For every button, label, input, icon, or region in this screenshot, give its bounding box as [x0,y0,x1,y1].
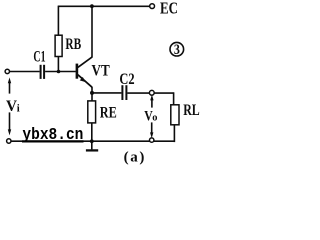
svg-text:i: i [17,104,20,115]
svg-text:RB: RB [65,36,81,53]
svg-text:V: V [6,98,17,115]
svg-text:o: o [152,113,157,124]
svg-text:C2: C2 [119,71,134,88]
svg-text:(a): (a) [124,149,146,165]
svg-text:3: 3 [174,42,180,58]
svg-text:VT: VT [92,63,110,80]
svg-text:RL: RL [183,102,200,119]
svg-text:C1: C1 [33,49,45,66]
svg-text:RE: RE [100,104,117,121]
svg-text:EC: EC [160,0,178,17]
